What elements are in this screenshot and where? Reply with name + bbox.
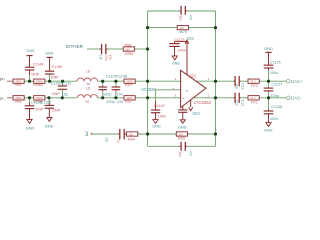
svg-text:100p: 100p: [106, 100, 114, 104]
svg-text:C1127: C1127: [271, 83, 282, 87]
svg-text:10p: 10p: [234, 83, 238, 89]
svg-text:C7: C7: [188, 152, 192, 156]
svg-text:1k0: 1k0: [129, 132, 134, 136]
svg-text:DAC-: DAC-: [291, 96, 302, 101]
svg-text:GND: GND: [26, 126, 35, 130]
svg-text:+: +: [90, 132, 94, 138]
svg-text:100n: 100n: [270, 117, 278, 121]
svg-text:C6: C6: [104, 138, 108, 142]
svg-text:C3: C3: [108, 55, 112, 59]
svg-text:1: 1: [208, 93, 210, 97]
svg-text:R560: R560: [34, 83, 43, 87]
svg-text:R59: R59: [15, 83, 22, 87]
svg-text:10n: 10n: [117, 100, 123, 104]
svg-text:102p: 102p: [103, 93, 111, 97]
svg-text:10n: 10n: [117, 93, 123, 97]
svg-text:GND: GND: [264, 129, 273, 133]
svg-text:C1128: C1128: [271, 105, 282, 109]
svg-text:L5: L5: [86, 86, 90, 90]
svg-text:1u: 1u: [85, 99, 89, 103]
svg-text:10p: 10p: [62, 92, 68, 96]
svg-text:100n: 100n: [178, 48, 186, 52]
svg-text:R66: R66: [125, 43, 132, 47]
svg-text:100p: 100p: [270, 94, 278, 98]
svg-text:4k75: 4k75: [179, 30, 187, 34]
svg-text:10p: 10p: [234, 100, 238, 106]
svg-text:GND: GND: [152, 125, 161, 129]
svg-text:3: 3: [85, 131, 89, 138]
svg-text:C1158: C1158: [116, 75, 127, 79]
svg-text:GND: GND: [26, 49, 35, 53]
svg-text:DITHER: DITHER: [66, 44, 84, 49]
svg-text:C5: C5: [189, 15, 193, 19]
svg-text:GND: GND: [172, 61, 181, 65]
svg-text:10n: 10n: [104, 55, 108, 61]
svg-text:3V3: 3V3: [192, 111, 200, 116]
svg-text:t: t: [216, 128, 217, 132]
svg-text:10u: 10u: [179, 15, 183, 21]
svg-text:4: 4: [208, 77, 210, 81]
svg-text:C115: C115: [63, 81, 72, 85]
svg-text:C1156: C1156: [51, 81, 62, 85]
svg-text:L6: L6: [86, 70, 90, 74]
svg-text:GND: GND: [45, 51, 54, 55]
svg-text:R72: R72: [251, 84, 258, 88]
svg-text:100n: 100n: [270, 71, 278, 75]
svg-text:C1123: C1123: [174, 38, 185, 42]
svg-text:LTC6362: LTC6362: [194, 100, 212, 105]
svg-text:C1157: C1157: [41, 100, 52, 104]
svg-text:R62: R62: [125, 99, 132, 103]
svg-text:GND: GND: [178, 125, 187, 129]
svg-text:C13: C13: [241, 100, 245, 106]
svg-text:C1144: C1144: [33, 62, 44, 66]
svg-text:GND: GND: [45, 124, 54, 128]
svg-text:10u: 10u: [178, 152, 182, 158]
svg-text:U21: U21: [188, 73, 196, 78]
svg-text:100n: 100n: [158, 115, 166, 119]
svg-text:R65: R65: [178, 137, 185, 141]
svg-text:-: -: [4, 97, 6, 102]
svg-text:C1125: C1125: [270, 61, 281, 65]
svg-text:1u: 1u: [86, 82, 90, 86]
svg-text:1k0: 1k0: [125, 47, 130, 51]
svg-text:2: 2: [175, 77, 177, 81]
svg-text:3: 3: [175, 94, 177, 98]
svg-text:R58: R58: [15, 99, 22, 103]
svg-text:+: +: [182, 97, 184, 101]
svg-text:DAC+: DAC+: [291, 79, 303, 84]
svg-text:DNP: DNP: [32, 72, 40, 76]
svg-text:DNP: DNP: [36, 108, 44, 112]
svg-text:C1155: C1155: [52, 65, 63, 69]
svg-text:C4: C4: [98, 55, 102, 59]
svg-text:DNP: DNP: [52, 92, 60, 96]
svg-text:3V3: 3V3: [186, 36, 194, 41]
svg-text:DNP: DNP: [53, 109, 61, 113]
svg-text:R64: R64: [128, 137, 135, 141]
svg-text:R63: R63: [125, 83, 132, 87]
svg-text:49R9: 49R9: [125, 52, 134, 56]
svg-text:1u: 1u: [117, 139, 121, 143]
svg-text:+: +: [3, 77, 6, 82]
svg-text:R71: R71: [251, 100, 258, 104]
svg-text:C1142: C1142: [154, 104, 165, 108]
svg-text:DNP: DNP: [51, 75, 59, 79]
svg-text:C13: C13: [241, 83, 245, 89]
svg-text:GND: GND: [264, 47, 273, 51]
svg-text:VCOM0: VCOM0: [141, 87, 156, 92]
